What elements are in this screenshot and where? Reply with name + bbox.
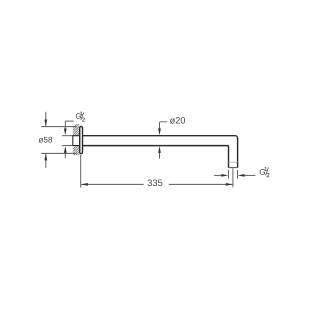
dimension G1/2 right left arrow	[214, 174, 228, 177]
label ø58	[39, 137, 53, 143]
dimension 335 line with arrows	[81, 183, 233, 186]
pipe extension lines left of wall	[62, 136, 73, 146]
arm pipe outline	[83, 136, 238, 168]
thread stub behind wall	[73, 135, 80, 146]
pipe bottom cap	[229, 167, 238, 169]
dimension G1/2 left bottom arrow	[64, 146, 67, 158]
dimension ø58 bottom arrow	[44, 154, 47, 168]
wall hatch lower	[60, 132, 106, 162]
thread tick on vertical pipe	[229, 161, 238, 163]
dimension ø58 top arrow	[44, 112, 47, 127]
dimension ø58 extension lines	[41, 127, 76, 154]
dimension ø20 leader and top arrow	[158, 122, 167, 136]
flange	[80, 127, 83, 154]
label 335	[148, 180, 163, 187]
dimension G1/2 right right arrow	[238, 174, 256, 177]
dimension ø20 bottom arrow	[158, 146, 161, 159]
label G1/2 left	[76, 112, 85, 122]
dimension G1/2 left top arrow	[64, 121, 67, 135]
dimension G1/2 left leader bracket	[65, 120, 73, 122]
label ø20	[170, 117, 185, 124]
wall hatch upper	[60, 111, 106, 141]
label G1/2 right	[260, 167, 270, 177]
dimension 335 extension line right	[232, 168, 234, 187]
dimension 335 extension line left	[80, 155, 82, 188]
dimension G1/2 right extension lines	[228, 170, 237, 179]
